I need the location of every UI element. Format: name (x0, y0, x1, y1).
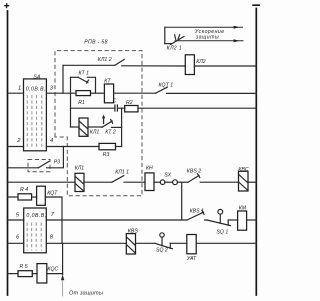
wire KQT to drop (45, 197, 62, 243)
wire YAT to negative bus (196, 242, 256, 244)
wire KT.2 to junction (112, 126, 122, 128)
wire R5 to KQC (32, 273, 37, 275)
svg-text:КВS 1: КВS 1 (190, 209, 204, 215)
wire R4 to KQT (32, 196, 37, 198)
relay coil KT (104, 78, 113, 102)
wire rail from SA terminal 7 (46, 219, 187, 221)
wire KL1.2 to KL2 (122, 65, 186, 67)
wire KVC to negative bus (248, 181, 256, 183)
wire acceleration riser (164, 27, 166, 43)
svg-text:КЛ2 1: КЛ2 1 (167, 46, 182, 52)
svg-text:SХ: SХ (164, 172, 171, 178)
wire KQT.1 to negative bus (167, 92, 257, 94)
capacitor C (113, 99, 118, 112)
wire KQC to node (47, 273, 63, 275)
wire SA terminal 2 (8, 146, 24, 148)
svg-text:SA: SA (33, 74, 41, 80)
wire acceleration output 2 (175, 34, 244, 42)
wire bus to R5 (8, 273, 19, 275)
svg-text:От защиты: От защиты (69, 290, 103, 296)
wire bus to SA terminal 5 (8, 219, 24, 221)
wire SA terminal 4 to R3 (46, 146, 99, 148)
contact SQ.1 (207, 209, 231, 235)
svg-text:РПВ - 58: РПВ - 58 (84, 40, 107, 46)
wire KL1 to contact KT.2 (88, 126, 102, 128)
wire to capacitor (71, 107, 115, 109)
wire node to KL1.2 riser (62, 65, 64, 93)
wire RZ to R3 line (47, 147, 64, 168)
wire node riser x70.5 (70, 93, 72, 127)
svg-text:КВS 2: КВS 2 (187, 168, 201, 174)
svg-text:R1: R1 (78, 100, 85, 106)
arrow from protection (61, 274, 64, 296)
svg-text:R3: R3 (103, 152, 110, 158)
svg-text:SQ 2: SQ 2 (156, 248, 168, 254)
wire KT1 loop right (88, 77, 96, 93)
svg-text:R 5: R 5 (20, 264, 28, 270)
trip coil YAT (187, 235, 197, 263)
wire SX to node (177, 181, 188, 183)
contact KVS.2 (187, 168, 201, 182)
wire KVS.2 to KVC winding (200, 181, 238, 183)
svg-text:0,0В.В,: 0,0В.В, (26, 213, 46, 219)
svg-text:КQС: КQС (47, 267, 58, 273)
svg-text:3: 3 (50, 86, 54, 92)
relay winding KVS (126, 229, 138, 254)
svg-text:0,0В.В,: 0,0В.В, (26, 86, 46, 92)
contact KT1 (78, 71, 89, 84)
wire KM to negative bus (247, 219, 257, 221)
contact RZ in dashed box (28, 160, 60, 172)
contact KT.2 with delay arrow (102, 115, 116, 136)
wire node drop (62, 243, 64, 274)
wire KL1.2 line (63, 64, 115, 66)
wire KL1 to contact KL1.1 (84, 181, 112, 183)
wire R3 to junction (116, 146, 122, 148)
wire bus to R4 (8, 196, 19, 198)
svg-text:R2: R2 (126, 100, 133, 106)
wire C to R2 (118, 107, 125, 109)
contact KL1.1 (112, 170, 129, 183)
relay coil KQT (37, 186, 59, 205)
wire SQ.1 to KM (228, 219, 237, 221)
wire bus to SA terminal 6 (8, 242, 24, 244)
contact SQ.2 (155, 233, 173, 254)
resistor R2 (125, 100, 138, 112)
svg-text:SQ 1: SQ 1 (216, 230, 228, 236)
relay winding KL1 (voltage) (75, 166, 85, 192)
plus terminal (4, 3, 9, 8)
contact KL2.1 (165, 35, 184, 52)
resistor R1 (76, 91, 91, 106)
svg-text:КЛ1: КЛ1 (90, 130, 100, 136)
relay coil KQC (37, 264, 58, 283)
svg-text:4: 4 (50, 138, 53, 144)
positive bus wire (7, 11, 9, 295)
svg-text:КН: КН (146, 166, 153, 172)
svg-text:КВС: КВС (238, 167, 248, 173)
connector SX (160, 172, 177, 184)
resistor R4 (18, 187, 32, 200)
svg-text:R 4: R 4 (20, 187, 28, 193)
wire junction riser x121.6 (121, 108, 123, 146)
svg-text:КВS: КВS (128, 229, 139, 235)
contact KQT.1 (156, 82, 174, 93)
svg-text:8: 8 (50, 234, 54, 240)
svg-text:КМ: КМ (239, 205, 247, 211)
wire KL1.1 to KN (124, 181, 145, 183)
wire node drop to rail (181, 182, 183, 220)
contact KVS.1 (187, 209, 204, 220)
svg-text:С: С (113, 99, 117, 105)
svg-text:5: 5 (16, 212, 20, 218)
svg-text:КЛ1: КЛ1 (75, 166, 85, 172)
dashed enclosure RPV-58 (55, 51, 142, 196)
switch SA section 2 body (24, 208, 47, 253)
wire R1 to KT (91, 92, 105, 94)
relay coil KN (145, 166, 154, 191)
resistor R5 (18, 264, 32, 277)
wire SQ.2 to YAT (170, 242, 187, 244)
svg-text:КТ 1: КТ 1 (79, 71, 90, 77)
wire KT to contact KQT.1 (114, 92, 156, 94)
svg-text:6: 6 (16, 235, 20, 241)
wire SA terminal 3 to node (46, 92, 76, 94)
svg-text:РЗ: РЗ (54, 160, 60, 166)
svg-text:КТ: КТ (104, 78, 111, 84)
wire bus to SA terminal 1 (8, 92, 24, 94)
svg-text:УАТ: УАТ (187, 256, 197, 262)
svg-text:КЛ1 2: КЛ1 2 (98, 57, 112, 63)
wire KL2 to negative bus (194, 65, 256, 67)
wire bus to KL1 voltage winding (8, 181, 76, 183)
wire bus to contact RZ (8, 167, 39, 169)
svg-text:защиты: защиты (195, 34, 219, 40)
wire R2 to negative bus (138, 107, 256, 109)
resistor R3 (99, 143, 116, 158)
svg-text:КQТ 1: КQТ 1 (159, 82, 174, 88)
wire KT1 loop top (71, 76, 79, 78)
contact KL1.2 (98, 57, 124, 66)
contactor coil KM (238, 205, 247, 230)
wire stub (205, 219, 208, 221)
wire riser to KL1 current winding (71, 126, 80, 128)
svg-text:КQТ: КQТ (47, 191, 58, 197)
wire KN to connector SX (154, 181, 160, 183)
wire acceleration output 1 (165, 26, 243, 35)
switch SA section 1 body (24, 74, 47, 151)
svg-text:1: 1 (18, 86, 21, 92)
wire KT1 loop left riser (70, 77, 72, 93)
minus terminal (252, 4, 260, 6)
svg-text:КТ 2: КТ 2 (105, 130, 116, 136)
wire rail from SA terminal 8 (46, 242, 126, 244)
svg-text:КЛ1 1: КЛ1 1 (115, 170, 129, 176)
wire KVS to SQ.2 (136, 242, 156, 244)
svg-text:КЛ2: КЛ2 (196, 59, 206, 65)
svg-text:2: 2 (16, 138, 21, 144)
relay coil KL2 (185, 55, 206, 75)
relay winding KL1 (current) (79, 118, 99, 136)
negative bus wire (255, 9, 257, 296)
relay winding KVC (238, 167, 248, 191)
svg-text:7: 7 (51, 212, 55, 218)
